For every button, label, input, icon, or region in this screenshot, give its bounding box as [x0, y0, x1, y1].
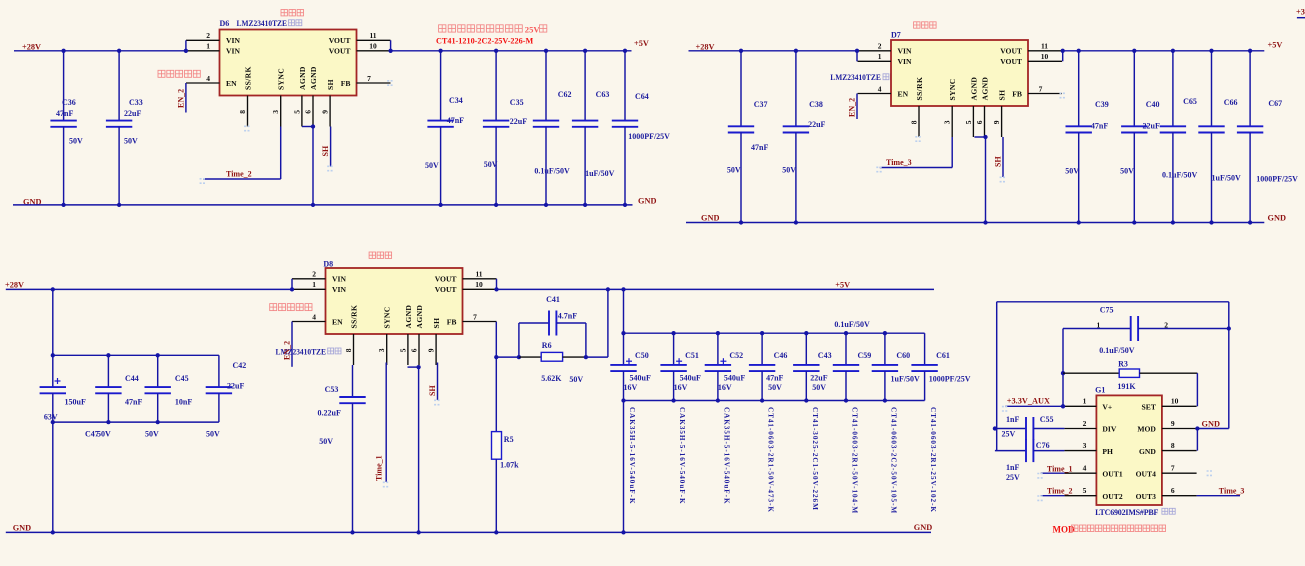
no-connect marker — [915, 137, 922, 141]
wire C46 bottom stem — [761, 371, 763, 400]
junction C34 to +5V rail — [438, 49, 442, 53]
G1 pin 8 GND stub — [1162, 450, 1197, 452]
junction C59 bottom bus — [844, 398, 848, 402]
G1 pin 6 OUT3 stub — [1162, 495, 1197, 497]
wire +5V to output bank bus — [623, 289, 625, 333]
junction C33 to +28V rail — [117, 49, 121, 53]
wire C76 right lead to PH — [1033, 450, 1064, 452]
svg-text:+3.: +3. — [1296, 8, 1305, 17]
wire C41 left lead — [519, 322, 549, 324]
capacitor C60 — [872, 365, 898, 371]
wire +28V rail circuit 1 — [14, 50, 186, 52]
svg-text:FB: FB — [341, 79, 351, 88]
capacitor C38 — [783, 126, 809, 132]
svg-text:1000PF/25V: 1000PF/25V — [628, 132, 670, 141]
wire C45 top stem — [157, 355, 159, 387]
wire C55 left lead — [995, 428, 1026, 430]
wire output bank to GND — [623, 401, 625, 533]
junction C47 bottom — [51, 420, 55, 424]
note 主模块 (master module) for D8 — [369, 252, 392, 258]
junction C60 top bus — [883, 331, 887, 335]
note 接地表示电源开关频率不变 — [1072, 525, 1166, 532]
wire Time_1 at G1 OUT1 — [1041, 472, 1065, 474]
wire C67 bottom stem — [1249, 133, 1251, 223]
wire output bank bottom bus — [624, 400, 925, 402]
D6 pin 10 VOUT stub — [357, 50, 391, 52]
svg-text:C40: C40 — [1146, 100, 1160, 109]
wire Time_3 at G1 OUT3 — [1197, 495, 1240, 497]
junction R3 left at V+ riser — [1061, 371, 1065, 375]
svg-text:4: 4 — [1083, 464, 1087, 473]
svg-text:8: 8 — [909, 120, 918, 124]
junction C35 to +5V rail — [494, 49, 498, 53]
D6 pin 5 AGND stub — [301, 96, 303, 127]
note 无铅 (lead-free) for D7 — [883, 74, 896, 80]
svg-text:50V: 50V — [812, 383, 826, 392]
capacitor C36 — [50, 121, 76, 127]
junction C67 to +5V rail — [1248, 49, 1252, 53]
wire AGND bridge D7 — [974, 136, 985, 138]
wire C36 top stem — [63, 51, 65, 121]
svg-text:50V: 50V — [69, 137, 83, 146]
no-connect marker — [434, 400, 441, 404]
wire EN_2 stub at D7 — [856, 94, 858, 120]
svg-text:C46: C46 — [774, 351, 788, 360]
no-connect marker — [244, 126, 251, 130]
svg-text:9: 9 — [1171, 419, 1175, 428]
svg-text:C41: C41 — [546, 295, 560, 304]
junction R6/C41 left — [517, 355, 521, 359]
wire C37 bottom stem — [740, 133, 742, 223]
junction C46 bottom bus — [760, 398, 764, 402]
svg-text:AGND: AGND — [309, 66, 318, 90]
svg-text:50V: 50V — [425, 161, 439, 170]
junction C34 to GND rail — [438, 203, 442, 207]
wire C53 to GND — [352, 403, 354, 532]
capacitor C34 — [427, 121, 453, 127]
svg-text:9: 9 — [321, 110, 330, 114]
svg-text:10nF: 10nF — [175, 398, 192, 407]
svg-text:FB: FB — [447, 317, 457, 326]
D7 pin 4 EN stub — [858, 93, 892, 95]
svg-text:50V: 50V — [727, 165, 741, 174]
wire C35 top stem — [495, 51, 497, 121]
D6 pin 2 VIN stub — [186, 39, 220, 41]
svg-text:0.1uF/50V: 0.1uF/50V — [834, 320, 870, 329]
D8 pin 1 VIN stub — [292, 288, 326, 290]
svg-text:25V: 25V — [1006, 473, 1020, 482]
svg-text:D7: D7 — [891, 31, 901, 40]
junction C75 right at GND loop — [1227, 326, 1231, 330]
junction MOD/GND pin 8 — [1195, 426, 1199, 430]
wire C64 top stem — [624, 51, 626, 121]
wire Time_2 at G1 OUT2 — [1041, 495, 1065, 497]
svg-text:SH: SH — [326, 79, 335, 90]
wire C63 bottom stem — [584, 127, 586, 205]
D7 pin 1 VIN stub — [858, 60, 892, 62]
svg-text:0.22uF: 0.22uF — [318, 408, 341, 417]
junction C45 bottom — [156, 420, 160, 424]
svg-text:1000PF/25V: 1000PF/25V — [1256, 175, 1298, 184]
capacitor C35 — [483, 121, 509, 127]
svg-text:SYNC: SYNC — [383, 306, 392, 328]
svg-text:1: 1 — [1097, 321, 1101, 330]
D8 pin 4 EN stub — [292, 321, 326, 323]
svg-text:6: 6 — [409, 348, 418, 352]
svg-text:AGND: AGND — [404, 305, 413, 329]
svg-text:C33: C33 — [129, 98, 143, 107]
D7 pin 7 FB stub — [1028, 93, 1062, 95]
D7 pin 11 VOUT stub — [1028, 50, 1062, 52]
svg-text:1.07k: 1.07k — [500, 461, 519, 470]
wire C42 bottom stem — [218, 393, 220, 422]
wire +3.3V_AUX to V+ — [1005, 405, 1064, 407]
svg-text:C65: C65 — [1183, 97, 1197, 106]
wire SH stub at D6 — [330, 127, 332, 167]
svg-text:FB: FB — [1012, 89, 1022, 98]
wire D7 SYNC down — [951, 137, 953, 168]
C51 polarity + — [676, 358, 682, 364]
svg-text:EN_2: EN_2 — [176, 89, 185, 108]
wire C61 top stem — [924, 333, 926, 365]
svg-text:EN_2: EN_2 — [848, 98, 857, 117]
svg-text:50V: 50V — [97, 430, 111, 439]
C50 polarity + — [626, 358, 632, 364]
svg-text:AGND: AGND — [981, 77, 990, 101]
svg-text:3: 3 — [377, 348, 386, 352]
svg-text:C38: C38 — [809, 100, 823, 109]
svg-text:8: 8 — [344, 348, 353, 352]
svg-text:C62: C62 — [558, 90, 572, 99]
svg-text:22uF: 22uF — [227, 381, 244, 390]
junction C53 at GND rail — [350, 530, 354, 534]
wire C66 top stem — [1211, 51, 1213, 127]
wire VIN pins jog D6 — [185, 40, 187, 51]
wire C45 bottom stem — [157, 393, 159, 422]
wire C65 bottom stem — [1172, 133, 1174, 223]
junction C39 to +5V rail — [1077, 49, 1081, 53]
junction C65 to GND rail — [1171, 220, 1175, 224]
junction C50 top bus — [621, 331, 625, 335]
svg-text:63V: 63V — [44, 413, 58, 422]
wire R5 to GND — [495, 459, 497, 532]
no-connect marker — [387, 81, 394, 85]
junction C47 top — [51, 353, 55, 357]
junction C40 to +5V rail — [1132, 49, 1136, 53]
wire GND loop right vertical — [1228, 302, 1230, 429]
svg-text:22uF: 22uF — [1143, 122, 1160, 131]
junction +28V at D8 VIN — [290, 287, 294, 291]
svg-text:16V: 16V — [624, 383, 638, 392]
svg-text:11: 11 — [475, 270, 482, 279]
svg-text:VOUT: VOUT — [435, 275, 457, 284]
svg-text:C52: C52 — [729, 351, 743, 360]
note 下个阶段改成耐压值25V的 (red note line 1) — [439, 25, 523, 32]
note 无铅 (lead-free) for D6 — [289, 20, 302, 26]
junction VOUT at +5V rail circuit 3 — [494, 287, 498, 291]
svg-text:GND: GND — [701, 213, 719, 222]
svg-text:C61: C61 — [936, 351, 950, 360]
svg-text:C35: C35 — [510, 98, 524, 107]
D8 pin 11 VOUT stub — [463, 278, 497, 280]
svg-text:C66: C66 — [1224, 98, 1238, 107]
svg-text:SYNC: SYNC — [277, 68, 286, 90]
capacitor C50 — [610, 365, 636, 371]
junction VOUT at +5V rail circuit 2 — [1061, 49, 1065, 53]
junction C63 to GND rail — [583, 203, 587, 207]
svg-text:+5V: +5V — [1268, 40, 1283, 49]
wire C34 bottom stem — [440, 127, 442, 205]
junction riser at +5V rail — [606, 287, 610, 291]
junction R5 at GND rail — [494, 530, 498, 534]
wire C40 top stem — [1133, 51, 1135, 127]
wire C67 top stem — [1249, 51, 1251, 127]
resistor R5 body — [492, 432, 502, 460]
svg-text:OUT4: OUT4 — [1136, 469, 1156, 478]
junction C52 top bus — [716, 331, 720, 335]
svg-text:+5V: +5V — [634, 39, 649, 48]
svg-text:VIN: VIN — [332, 285, 346, 294]
wire VOUT pins jog D6 — [390, 40, 392, 51]
wire C41 right lead — [556, 322, 586, 324]
wire C34 top stem — [440, 51, 442, 121]
junction bank feed at +5V rail — [621, 287, 625, 291]
junction C52 bottom bus — [716, 398, 720, 402]
svg-text:50V: 50V — [124, 137, 138, 146]
junction C59 top bus — [844, 331, 848, 335]
capacitor C46 — [749, 365, 775, 371]
junction VOUT at +5V rail circuit 1 — [388, 49, 392, 53]
wire C47 bottom stem — [52, 393, 54, 422]
capacitor C51 — [660, 365, 686, 371]
wire +28V rail circuit 3 — [6, 288, 292, 290]
junction +28V at D6 VIN — [184, 49, 188, 53]
wire C33 bottom stem — [118, 127, 120, 205]
wire AGND bridge D8 — [408, 366, 419, 368]
no-connect marker — [383, 482, 390, 486]
svg-text:1uF/50V: 1uF/50V — [1212, 173, 1242, 182]
capacitor C45 — [145, 387, 171, 393]
svg-text:SH: SH — [994, 156, 1003, 167]
svg-text:SET: SET — [1142, 403, 1156, 412]
svg-text:47nF: 47nF — [447, 116, 464, 125]
svg-text:4.7nF: 4.7nF — [558, 312, 577, 321]
svg-text:SS/RK: SS/RK — [350, 305, 359, 329]
wire D6 SYNC down — [280, 127, 282, 180]
junction C45 top — [156, 353, 160, 357]
D6 pin 9 SH stub — [329, 96, 331, 127]
svg-text:16V: 16V — [674, 383, 688, 392]
D7 pin 5 AGND stub — [972, 106, 974, 137]
D7 pin 9 SH stub — [1001, 106, 1003, 137]
svg-text:10: 10 — [1041, 52, 1049, 61]
D6 pin 8 SS/RK stub — [247, 96, 249, 127]
svg-text:5: 5 — [292, 110, 301, 114]
capacitor C76 — [1026, 439, 1033, 462]
capacitor C67 — [1237, 126, 1263, 132]
wire SH stub at D7 — [1002, 137, 1004, 177]
G1 pin 7 OUT4 stub — [1162, 472, 1197, 474]
junction C66 to +5V rail — [1209, 49, 1213, 53]
svg-text:CT41-0603-2R1-50V-104-M: CT41-0603-2R1-50V-104-M — [851, 407, 859, 514]
capacitor C33 — [106, 121, 132, 127]
junction R6/C41 right — [584, 355, 588, 359]
svg-text:CT41-1210-2C2-25V-226-M: CT41-1210-2C2-25V-226-M — [436, 36, 533, 45]
svg-text:Time_3: Time_3 — [886, 158, 912, 167]
wire R3 to SET pin — [1196, 373, 1198, 406]
svg-text:1000PF/25V: 1000PF/25V — [929, 375, 971, 384]
D7 pin 8 SS/RK stub — [918, 106, 920, 137]
junction V+ node — [1061, 404, 1065, 408]
capacitor C59 — [833, 365, 859, 371]
D8 pin 2 VIN stub — [292, 278, 326, 280]
junction AGND at GND rail — [311, 203, 315, 207]
junction C55 at GND loop — [993, 426, 997, 430]
svg-text:VIN: VIN — [226, 47, 240, 56]
note 从模块 (slave module) for D6 — [281, 10, 304, 16]
wire output bank top bus — [624, 332, 925, 334]
D8 pin 5 AGND stub — [407, 334, 409, 365]
svg-text:7: 7 — [367, 74, 371, 83]
junction AGND pins D6 — [311, 124, 315, 128]
svg-text:EN: EN — [226, 79, 237, 88]
svg-text:5: 5 — [398, 348, 407, 352]
wire bank feed down — [52, 289, 54, 355]
junction C66 to GND rail — [1209, 220, 1213, 224]
note 悬空为使能 (floating enables) for D6 — [158, 70, 200, 77]
junction C64 to +5V rail — [623, 49, 627, 53]
junction C35 to GND rail — [494, 203, 498, 207]
svg-text:540uF: 540uF — [630, 374, 651, 383]
wire GND pin 8 riser — [1196, 429, 1198, 451]
wire C43 bottom stem — [805, 371, 807, 400]
svg-text:LTC6902IMS#PBF: LTC6902IMS#PBF — [1095, 508, 1158, 517]
svg-text:22uF: 22uF — [510, 117, 527, 126]
wire C38 top stem — [795, 51, 797, 127]
wire AGND to GND rail D7 — [985, 137, 987, 223]
wire riser to +5V rail — [607, 289, 609, 357]
svg-text:4: 4 — [878, 84, 882, 93]
wire bank to GND — [52, 422, 54, 532]
wire C60 top stem — [884, 333, 886, 365]
svg-text:47nF: 47nF — [125, 398, 142, 407]
R3 left terminal — [1063, 372, 1119, 374]
svg-text:47nF: 47nF — [766, 374, 783, 383]
svg-text:2: 2 — [206, 31, 210, 40]
svg-text:C60: C60 — [896, 351, 910, 360]
junction C39 to GND rail — [1077, 220, 1081, 224]
svg-text:C63: C63 — [596, 90, 610, 99]
wire C62 bottom stem — [545, 127, 547, 205]
wire C59 top stem — [845, 333, 847, 365]
junction C36 to +28V rail — [61, 49, 65, 53]
wire C39 bottom stem — [1078, 133, 1080, 223]
svg-text:5.62K: 5.62K — [541, 374, 562, 383]
wire VIN pins jog D8 — [291, 279, 293, 290]
junction AGND at GND rail circuit 3 — [416, 530, 420, 534]
svg-text:GND: GND — [13, 523, 31, 532]
G1 pin 1 V+ stub — [1064, 405, 1096, 407]
wire +28V rail circuit 2 — [689, 50, 858, 52]
junction C36 to GND rail — [61, 203, 65, 207]
wire VOUT pins jog D8 — [496, 279, 498, 290]
svg-text:GND: GND — [914, 523, 932, 532]
svg-text:8: 8 — [1171, 441, 1175, 450]
wire C66 bottom stem — [1211, 133, 1213, 223]
svg-text:C50: C50 — [635, 351, 649, 360]
wire GND rail circuit 2 — [686, 222, 1264, 224]
wire C43 top stem — [805, 333, 807, 365]
wire MOD to GND loop — [1197, 428, 1228, 430]
svg-text:C42: C42 — [233, 361, 247, 370]
wire input bank top bus — [53, 354, 219, 356]
wire C75 right lead — [1138, 328, 1229, 330]
capacitor C37 — [728, 126, 754, 132]
svg-text:Time_1: Time_1 — [1047, 464, 1073, 473]
no-connect marker — [200, 179, 207, 183]
wire C51 bottom stem — [673, 371, 675, 400]
svg-text:C36: C36 — [62, 98, 76, 107]
svg-text:0.1uF/50V: 0.1uF/50V — [1162, 171, 1198, 180]
wire GND rail circuit 1 — [13, 204, 633, 206]
svg-text:540uF: 540uF — [724, 374, 745, 383]
svg-text:3: 3 — [943, 120, 952, 124]
svg-text:C75: C75 — [1100, 305, 1114, 314]
junction C51 top bus — [671, 331, 675, 335]
voltage regulator D6 LMZ23410TZE body — [220, 30, 357, 96]
svg-text:LMZ23410TZE: LMZ23410TZE — [830, 73, 881, 82]
wire GND loop left vertical — [996, 302, 998, 451]
wire FB node vertical upper — [495, 322, 497, 432]
svg-text:1uF/50V: 1uF/50V — [585, 169, 615, 178]
R6 left terminal — [519, 356, 541, 358]
junction C43 top bus — [804, 331, 808, 335]
svg-text:CT41-0603-2R1-50V-473-K: CT41-0603-2R1-50V-473-K — [767, 407, 775, 513]
wire SH stub at D8 — [437, 363, 439, 401]
svg-text:GND: GND — [638, 196, 656, 205]
note 悬空为使能 (floating enables) for D8 — [270, 304, 312, 311]
svg-text:22uF: 22uF — [810, 374, 827, 383]
wire Time_3 horizontal — [880, 167, 953, 169]
wire C62 top stem — [545, 51, 547, 121]
wire C44 bottom stem — [107, 393, 109, 422]
svg-text:+3.3V_AUX: +3.3V_AUX — [1007, 396, 1050, 405]
no-connect marker — [1037, 496, 1044, 500]
wire C61 bottom stem — [924, 371, 926, 400]
svg-text:LMZ23410TZE: LMZ23410TZE — [237, 19, 288, 28]
wire C63 top stem — [584, 51, 586, 121]
svg-text:CT41-0603-2R1-25V-102-K: CT41-0603-2R1-25V-102-K — [929, 407, 937, 513]
svg-text:VOUT: VOUT — [435, 285, 457, 294]
G1 pin 9 MOD stub — [1162, 428, 1197, 430]
D6 pin 11 VOUT stub — [357, 39, 391, 41]
D6 pin 1 VIN stub — [186, 50, 220, 52]
svg-text:1uF/50V: 1uF/50V — [891, 375, 921, 384]
wire C59 bottom stem — [845, 371, 847, 400]
svg-text:5: 5 — [1083, 486, 1087, 495]
svg-text:SH: SH — [321, 145, 330, 156]
G1 pin 3 PH stub — [1064, 450, 1096, 452]
svg-text:GND: GND — [1268, 214, 1286, 223]
wire C52 top stem — [717, 333, 719, 365]
svg-text:Time_2: Time_2 — [226, 170, 252, 179]
wire C64 bottom stem — [624, 127, 626, 205]
svg-text:CAK35H-5-16V-540uF-K: CAK35H-5-16V-540uF-K — [678, 407, 686, 505]
G1 pin 4 OUT1 stub — [1064, 472, 1096, 474]
capacitor C44 — [95, 387, 121, 393]
capacitor C41 — [549, 311, 556, 336]
svg-text:2: 2 — [1083, 419, 1087, 428]
